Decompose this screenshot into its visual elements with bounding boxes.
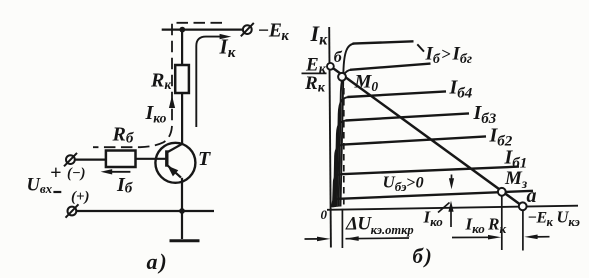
node collector supply junction: [179, 27, 185, 33]
arrow Iko up: [450, 211, 452, 228]
transistor T circle: [155, 143, 195, 183]
extension line Mz: [501, 196, 503, 250]
emitter arrow (pnp): [168, 166, 179, 177]
wire base: [136, 158, 168, 160]
wire emitter down: [181, 178, 183, 211]
wire bottom: [76, 210, 214, 212]
wire collector lower: [181, 93, 183, 144]
dashed line dU: [343, 88, 345, 209]
curve Ib2: [334, 145, 345, 208]
point Mz: [498, 188, 506, 196]
dim IkoRk left arrow: [452, 236, 491, 238]
wire collector upper: [181, 30, 183, 65]
dim IkoRk right arrow: [534, 236, 550, 238]
label minus: [53, 191, 61, 193]
terminal input bottom: [66, 204, 79, 217]
svg-text:(+): (+): [71, 189, 90, 205]
wire input top: [75, 159, 106, 161]
leader Ib>Ibg: [417, 44, 424, 51]
axis Ik (y): [329, 27, 331, 248]
curve Ibg through M0: [339, 70, 352, 207]
arrow Ube leader down: [451, 175, 453, 180]
dim dU right arrow: [346, 237, 410, 240]
point b: [327, 63, 334, 70]
dim dU left arrow: [305, 238, 321, 240]
terminal input top: [64, 153, 77, 166]
svg-text:T: T: [198, 148, 211, 170]
svg-text:б: б: [334, 49, 343, 66]
curve Ib4: [337, 97, 349, 207]
curve Ube>0 (Iko level): [332, 199, 340, 208]
svg-text:0: 0: [321, 207, 328, 222]
svg-text:a: a: [527, 185, 537, 207]
arrow Ib: [110, 171, 130, 173]
resistor Rb: [106, 151, 136, 168]
point M0: [338, 73, 346, 81]
node emitter-ground junction: [179, 208, 185, 214]
ground: [181, 211, 183, 239]
transistor T collector lead: [167, 144, 183, 153]
wire top supply: [162, 29, 244, 31]
curve Ib>Ibg: [341, 44, 355, 207]
svg-text:б ): б ): [413, 244, 432, 268]
transistor T base bar: [165, 150, 168, 166]
terminal -Ek: [241, 23, 254, 36]
arrow Iko direction: [169, 96, 175, 109]
curve Ib3: [335, 120, 347, 207]
extension line a: [522, 210, 524, 250]
point a: [519, 202, 527, 210]
transistor T emitter lead: [167, 165, 181, 178]
svg-text:а ): а ): [147, 249, 167, 274]
load line: [330, 66, 522, 206]
leader Iko: [438, 203, 450, 213]
axis Uke (x): [327, 206, 578, 210]
resistor Rk: [175, 65, 189, 93]
dashed Iko path: [93, 23, 222, 147]
extension below axis at dU: [341, 209, 343, 248]
curve Ib1: [333, 174, 343, 207]
svg-text:(−): (−): [67, 166, 85, 182]
arrow Ik hook: [196, 37, 221, 127]
